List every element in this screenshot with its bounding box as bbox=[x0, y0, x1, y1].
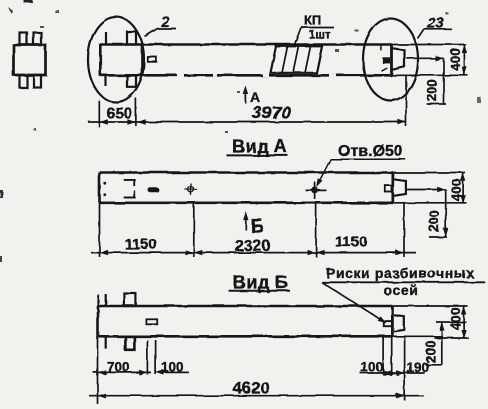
vid A angle mark lower bbox=[124, 191, 135, 198]
dim 4620 line bbox=[89, 395, 424, 397]
hole leader arrow bbox=[314, 178, 323, 188]
detail ellipse 2 bbox=[88, 17, 144, 102]
dim line 650-3970 bbox=[88, 121, 406, 123]
vid B left end tick above bbox=[97, 295, 99, 307]
arrow top 200 right bbox=[435, 56, 444, 61]
top view beam left end bbox=[99, 44, 102, 76]
svg-text:700: 700 bbox=[107, 360, 130, 375]
vid B right dim line bbox=[360, 372, 425, 374]
svg-text:осей: осей bbox=[384, 282, 419, 298]
vid A dim line bbox=[91, 252, 416, 254]
KP label underline bbox=[301, 27, 334, 29]
svg-text:400: 400 bbox=[448, 307, 463, 330]
vid B end vertical bbox=[391, 306, 394, 336]
vid A hole mark bbox=[305, 182, 326, 200]
vid A dim ext 2 bbox=[193, 203, 195, 257]
vid A 200 arrows bbox=[437, 187, 446, 192]
svg-text:200: 200 bbox=[427, 210, 442, 233]
svg-text:КП: КП bbox=[304, 13, 321, 28]
vid B stub top bbox=[124, 294, 135, 307]
vid B title underline bbox=[229, 290, 290, 292]
top view dim 200 line bbox=[443, 58, 445, 104]
vid B top edge extension bbox=[392, 305, 467, 307]
svg-text:200: 200 bbox=[423, 341, 438, 364]
vid B dim ext 700-100 b bbox=[155, 340, 157, 375]
svg-text:400: 400 bbox=[448, 48, 463, 71]
riski leader bbox=[322, 282, 386, 322]
head plate bbox=[148, 57, 157, 62]
riski leader arrow bbox=[377, 316, 387, 325]
svg-text:Риски разбивочных: Риски разбивочных bbox=[326, 265, 475, 281]
vid A 400 arrows bbox=[460, 173, 465, 182]
vid B 700 arrows bbox=[98, 370, 107, 375]
svg-text:1шт: 1шт bbox=[309, 30, 331, 42]
label 2 underline bbox=[158, 28, 177, 30]
head tick bottom bbox=[105, 75, 107, 86]
head end weld line bbox=[141, 45, 144, 76]
arrow A view bbox=[243, 86, 248, 95]
svg-text:23: 23 bbox=[426, 15, 444, 32]
section stub bottom-left bbox=[20, 75, 28, 88]
vid A axis mark bbox=[185, 184, 197, 196]
label 2 leader bbox=[145, 29, 158, 37]
KP inner line 2 bbox=[294, 46, 300, 73]
vid B dim 200 tick bbox=[425, 364, 441, 366]
svg-text:2: 2 bbox=[160, 14, 170, 31]
vid A dim 400 line bbox=[462, 173, 464, 204]
vid A end bracket bbox=[393, 179, 406, 196]
vid B stub bottom bbox=[125, 336, 134, 350]
vid A dim arrows bbox=[100, 250, 109, 255]
top view dim 200 bottom tick bbox=[427, 103, 446, 105]
vid B end riska bbox=[384, 321, 392, 326]
vid B beam top edge bbox=[98, 305, 392, 308]
vid B dim 400 line bbox=[463, 306, 465, 338]
label 23 leader bbox=[418, 29, 425, 39]
vid B dim ext 700-100 a bbox=[146, 340, 148, 375]
top view end riska mark bbox=[383, 58, 390, 63]
head stub top bbox=[127, 32, 136, 45]
vid B dim ext right a bbox=[382, 337, 384, 375]
riski label underline bbox=[322, 281, 486, 283]
svg-text:4620: 4620 bbox=[233, 380, 270, 398]
vid B arrow B view bbox=[243, 212, 248, 221]
top view beam bottom edge bbox=[100, 74, 392, 77]
vid A title underline bbox=[227, 154, 289, 156]
svg-text:Вид Б: Вид Б bbox=[233, 273, 288, 293]
vid A dim ext 1 bbox=[99, 203, 101, 257]
vid A angle mark upper bbox=[124, 180, 135, 187]
arrow top 400 up bbox=[462, 45, 467, 54]
vid A end tab bbox=[385, 186, 392, 192]
svg-text:200: 200 bbox=[425, 79, 440, 102]
hole label leader bbox=[318, 159, 406, 184]
svg-text:2320: 2320 bbox=[235, 238, 271, 255]
arrow top 400 down bbox=[462, 67, 467, 76]
svg-text:650: 650 bbox=[107, 106, 133, 123]
top view dim 400 line bbox=[463, 45, 465, 76]
svg-text:100: 100 bbox=[361, 360, 384, 375]
dim 3970 extension right bbox=[405, 76, 407, 127]
vid A dim 200 line bbox=[445, 190, 447, 237]
dim 650 extension left bbox=[98, 101, 100, 128]
arrow 3970 left bbox=[137, 119, 146, 124]
vid B dim ext right b bbox=[391, 337, 393, 375]
scan noise specks bbox=[0, 0, 481, 262]
KP leader bbox=[295, 28, 302, 45]
vid B end bracket bbox=[394, 315, 404, 331]
svg-text:400: 400 bbox=[449, 179, 464, 202]
vid A dim ext 3 bbox=[315, 203, 317, 257]
vid A beam top edge bbox=[100, 171, 394, 174]
top view beam bottom edge extension bbox=[392, 74, 468, 76]
top view end diagonal riska bbox=[382, 68, 388, 71]
vid A dim 200 connector bbox=[406, 189, 446, 191]
vid B dim 200 line bbox=[441, 322, 443, 365]
svg-text:Б: Б bbox=[251, 217, 265, 238]
photocopy fade nicks bbox=[177, 74, 336, 77]
KP inner line 3 bbox=[305, 46, 311, 73]
vid A bolt dot 1 bbox=[103, 182, 106, 185]
svg-text:3970: 3970 bbox=[252, 103, 291, 123]
vid A beam bottom edge bbox=[100, 202, 394, 205]
vid B tick top bbox=[105, 294, 107, 306]
vid B dim ext right c bbox=[404, 337, 406, 401]
top view beam top edge extension bbox=[392, 44, 466, 46]
vid B plate bbox=[146, 319, 157, 324]
vid B left end dim extension bbox=[97, 336, 99, 404]
vid A dim 200 tick bbox=[429, 236, 447, 238]
section stub bottom-right bbox=[34, 75, 42, 88]
dim 650 extension right bbox=[135, 98, 137, 126]
top view beam right end bbox=[390, 45, 393, 76]
top view end bracket bbox=[393, 48, 405, 69]
top view end tick bbox=[380, 45, 382, 51]
vid B bottom edge extension bbox=[392, 336, 469, 338]
vid A slot plate bbox=[148, 187, 159, 192]
section stub top-right bbox=[34, 33, 42, 46]
vid A end vertical bbox=[391, 173, 394, 203]
vid A bottom edge extension bbox=[393, 202, 467, 204]
4620 arrows bbox=[98, 393, 107, 398]
vid A dim ext 4 bbox=[403, 203, 405, 257]
vid B mid axis extension bbox=[436, 321, 467, 323]
section view square body bbox=[14, 45, 46, 75]
KP inner line 1 bbox=[282, 46, 288, 73]
view arrow B bbox=[245, 215, 247, 230]
vid A top edge extension bbox=[393, 172, 465, 174]
top view dim 200 connector bbox=[406, 57, 444, 59]
arrow 3970 right bbox=[398, 119, 407, 124]
vid B 400 arrows bbox=[461, 306, 466, 315]
vid B beam left end bbox=[97, 306, 100, 336]
arrows top view 650 left bbox=[99, 119, 108, 124]
view arrow A bbox=[244, 89, 246, 103]
svg-text:100: 100 bbox=[161, 360, 184, 375]
section stub top-left bbox=[20, 33, 28, 46]
vid B right dims arrows bbox=[383, 370, 392, 375]
arrow 650 right bbox=[127, 119, 136, 124]
right detail ellipse 23 bbox=[363, 19, 418, 101]
vid B 200 arrow bbox=[439, 322, 444, 331]
vid B beam bottom edge bbox=[98, 335, 392, 338]
head tick top bbox=[105, 32, 107, 45]
KP bracket parallelogram bbox=[271, 46, 323, 73]
label 23 underline bbox=[424, 28, 452, 30]
svg-text:1150: 1150 bbox=[125, 236, 158, 253]
svg-text:Отв.Ø50: Отв.Ø50 bbox=[338, 143, 403, 160]
vid B tick bottom bbox=[105, 336, 107, 348]
vid B left dim line bbox=[93, 371, 189, 373]
top view beam top edge bbox=[100, 43, 392, 46]
vid A beam left end bbox=[98, 173, 101, 203]
head stub bottom bbox=[127, 75, 136, 87]
svg-text:1150: 1150 bbox=[335, 234, 368, 251]
svg-text:Вид А: Вид А bbox=[232, 137, 288, 157]
vid A bolt dot 2 bbox=[103, 193, 106, 196]
